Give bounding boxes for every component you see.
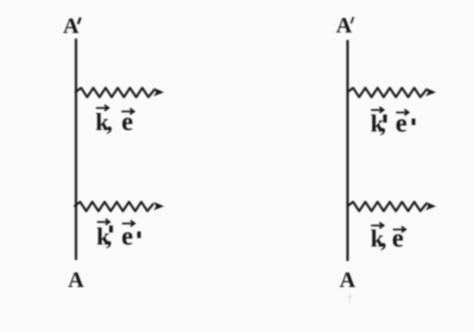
faint scan ghost below right A xyxy=(348,294,353,304)
left lower photon wave k',e' xyxy=(74,202,154,211)
left upper photon wave k,e xyxy=(75,88,155,97)
right upper photon wave k',e' xyxy=(347,88,427,97)
right lower photon wave k,e xyxy=(347,202,427,211)
left electron line A'-A xyxy=(75,39,77,261)
left label A' prime xyxy=(78,18,81,25)
svg-text:,: , xyxy=(106,225,112,251)
left upper label vector arrow over k xyxy=(96,105,109,111)
left lower label k prime xyxy=(109,226,113,233)
right electron line A'-A xyxy=(346,40,348,261)
svg-text:A: A xyxy=(68,267,84,292)
svg-text:,: , xyxy=(381,227,387,253)
right upper photon arrowhead xyxy=(426,88,436,96)
right upper label e prime xyxy=(412,119,416,126)
right label A' prime xyxy=(351,17,354,24)
svg-text:A: A xyxy=(336,13,352,38)
left lower photon arrowhead xyxy=(154,202,164,210)
right upper label vector arrow over e xyxy=(396,110,409,116)
right upper label k prime xyxy=(383,115,387,123)
left lower label vector arrow over k xyxy=(97,219,110,225)
left lower label vector arrow over e xyxy=(122,221,135,227)
svg-text:,: , xyxy=(380,112,386,138)
svg-text:A: A xyxy=(340,267,356,292)
svg-text:,: , xyxy=(107,110,113,136)
left upper photon arrowhead xyxy=(154,88,164,96)
right upper label vector arrow over k xyxy=(371,107,384,113)
right lower label vector arrow over k xyxy=(371,223,384,229)
svg-text:A: A xyxy=(63,13,79,38)
left upper label vector arrow over e xyxy=(122,109,135,115)
right lower label vector arrow over e xyxy=(393,227,406,233)
left lower label e prime xyxy=(137,232,141,239)
right lower photon arrowhead xyxy=(426,202,436,210)
